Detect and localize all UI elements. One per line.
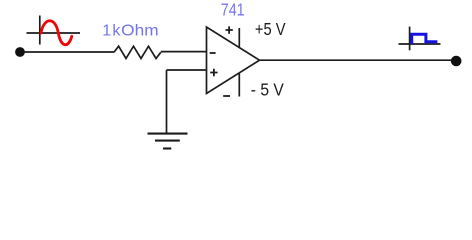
ground symbol bar 2 [155, 140, 180, 142]
svg-text:k: k [112, 23, 121, 40]
square pulse symbol (output waveform) [412, 34, 438, 44]
wire op-amp output to output node [260, 59, 453, 61]
svg-text:741: 741 [221, 0, 245, 20]
op-amp V+ power pin [238, 28, 240, 48]
wire resistor to op-amp inverting input [161, 51, 207, 53]
resistor R1 zigzag [114, 46, 161, 58]
op-amp U1 triangle [207, 27, 260, 94]
wire non-inverting input to ground (horizontal) [167, 69, 207, 71]
svg-text:- 5 V: - 5 V [251, 80, 284, 100]
svg-text:1: 1 [102, 23, 111, 40]
output waveform axis vertical [409, 27, 411, 51]
op-amp V- minus marker [223, 95, 230, 97]
svg-text:+5 V: +5 V [255, 19, 286, 39]
node IN (input terminal dot) [15, 47, 25, 57]
op-amp V+ plus marker [226, 26, 233, 33]
output waveform axis horizontal [399, 43, 441, 45]
node OUT (output terminal dot) [451, 56, 462, 67]
ground symbol bar 1 [148, 133, 188, 135]
op-amp inverting input minus marker [210, 52, 216, 54]
source waveform axis horizontal [27, 32, 81, 34]
op-amp V- power pin [238, 74, 240, 97]
op-amp non-inverting input plus marker [210, 69, 217, 76]
sine wave symbol (input source) [41, 21, 72, 45]
svg-text:Ohm: Ohm [121, 23, 158, 40]
source waveform axis vertical [39, 16, 41, 45]
wire down to ground (vertical) [166, 70, 168, 133]
wire input node to resistor [24, 51, 114, 53]
ground symbol bar 3 [163, 147, 171, 149]
